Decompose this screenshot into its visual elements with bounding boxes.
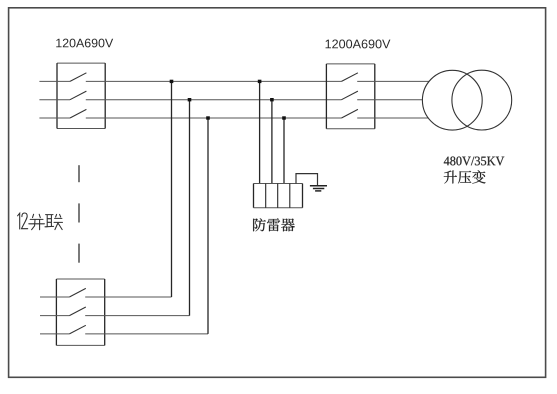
switch blade QF0 phase 3: [342, 109, 358, 118]
switch blade QF12 phase 2: [69, 307, 85, 316]
arrester cell divider: [289, 184, 291, 208]
circuit breaker QF12 (12th parallel inverter breaker): [56, 279, 104, 345]
circuit breaker QF0 (1200A main breaker): [326, 64, 374, 129]
switch blade QF0 phase 2: [342, 91, 358, 100]
switch blade QF1 phase 2: [70, 91, 86, 100]
switch blade QF12 phase 1: [69, 288, 85, 297]
wire: QF0 phase 3 output to transformer: [357, 117, 455, 119]
ground symbol: [310, 186, 327, 191]
node: bus junction: [258, 80, 262, 83]
circuit breaker QF1 (120A inverter breaker): [57, 63, 105, 128]
wire: bus phase 2 (QF1 output to QF0): [86, 99, 342, 101]
wire: QF12 phase 1 input: [40, 296, 69, 298]
transformer T1 (480V/35kV step-up), two winding circles: [422, 70, 511, 130]
label: 升压变: [444, 170, 486, 183]
wire: bus phase 1 (QF1 output to QF0): [86, 80, 342, 82]
label: 120A690V: [56, 39, 113, 48]
label: 480V/35KV: [444, 157, 504, 166]
wire: QF12 phase 1 output: [85, 296, 171, 298]
label: 12并联: [18, 213, 63, 230]
switch blade QF1 phase 1: [70, 73, 86, 82]
wire: riser phase 1 from QF12 up to bus 1: [171, 81, 173, 297]
surge arrester FV (防雷器), 4-cell box: [254, 184, 303, 208]
wire: arrester drop phase 2: [271, 100, 273, 184]
wire: riser phase 2 from QF12 up to bus 2: [189, 100, 191, 316]
node: bus junction: [170, 80, 174, 83]
switch blade QF12 phase 3: [69, 325, 85, 334]
node: bus junction: [188, 98, 192, 101]
wire: arrester drop phase 1: [259, 81, 261, 183]
wire: QF1 phase 1 input: [39, 80, 70, 82]
wire: bus phase 3 (QF1 output to QF0): [86, 117, 342, 119]
wire: QF0 phase 1 output to transformer: [357, 80, 455, 82]
switch blade QF1 phase 3: [70, 109, 86, 118]
wire: QF12 phase 2 input: [40, 315, 69, 317]
dashed continuation line (units 2..11 omitted): [78, 165, 80, 263]
wire: QF12 phase 2 output: [85, 315, 189, 317]
arrester cell divider: [277, 184, 279, 208]
label: 防雷器: [253, 218, 295, 231]
wire: riser phase 3 from QF12 up to bus 3: [207, 118, 209, 334]
wire: QF1 phase 2 input: [39, 99, 70, 101]
wire: QF12 phase 3 output: [85, 333, 208, 335]
arrester cell divider: [265, 184, 267, 208]
wire: arrester drop phase 3: [283, 118, 285, 184]
wire: QF12 phase 3 input: [40, 333, 69, 335]
label: 1200A690V: [326, 40, 391, 49]
node: bus junction: [282, 116, 286, 119]
node: bus junction: [206, 116, 210, 119]
wire: QF1 phase 3 input: [39, 117, 70, 119]
wire: QF0 phase 2 output to transformer: [357, 99, 455, 101]
switch blade QF0 phase 1: [342, 73, 358, 82]
node: bus junction: [270, 98, 274, 101]
wire: arrester to ground: [296, 174, 318, 186]
